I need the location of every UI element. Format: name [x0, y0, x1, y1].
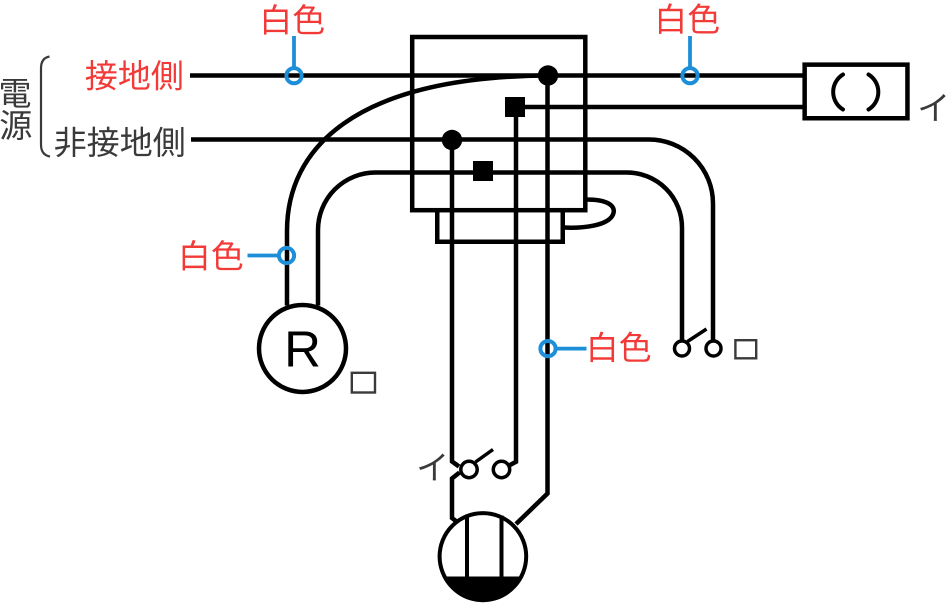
blue leader line bottom-middle — [557, 347, 587, 351]
node: junction square lower (lamp-switch loop) — [473, 161, 493, 181]
wire: lamp R left terminal curving up to grounded node — [287, 76, 548, 306]
junction box — [412, 37, 585, 210]
label 白色 left — [183, 240, 243, 270]
wire: ungrounded node down to switch i left pole — [452, 140, 459, 467]
node: ungrounded-side junction dot — [442, 130, 462, 150]
node: grounded-side junction dot — [538, 65, 558, 85]
label 非接地側 (ungrounded side) — [55, 127, 183, 158]
switch i right pole — [493, 461, 509, 477]
switch ro lever — [688, 329, 707, 342]
switch i left pole — [461, 461, 477, 477]
power source bracket — [41, 57, 50, 157]
ceiling light filled base segment — [443, 577, 524, 603]
cable loop at box corner — [563, 200, 614, 228]
blue marker circle bottom-middle — [540, 341, 555, 356]
wire: switch i left pole down to lamp — [452, 473, 460, 522]
label イ at switch — [419, 453, 445, 480]
wire: junction square to outlet bottom terminal — [515, 105, 806, 110]
wire: ungrounded-side horizontal, curving down to switch ro right pole — [191, 140, 713, 341]
label 電 (power source) — [1, 79, 30, 108]
svg-text:R: R — [284, 321, 321, 378]
label 源 (power source) — [1, 110, 32, 140]
blue leader line left — [248, 254, 278, 258]
receptacle R circle — [259, 305, 346, 392]
wire: lamp R right terminal through junction square, curving down to switch ro left pole — [318, 173, 682, 341]
node: junction square upper (to outlet) — [505, 97, 525, 117]
switch ro right pole — [706, 341, 721, 356]
wire: junction square down to switch i right pole — [510, 117, 516, 465]
outlet box — [805, 65, 908, 119]
ceiling light circle — [440, 513, 527, 600]
wire: grounded-side horizontal to outlet — [190, 73, 806, 78]
junction box tab — [437, 210, 563, 242]
label 白色 bottom-middle — [591, 332, 651, 362]
label イ at outlet — [920, 94, 946, 121]
wire: grounded node down to lamp — [516, 76, 548, 525]
blue leader line top-left — [292, 36, 296, 67]
blue marker circle top-left — [286, 68, 301, 83]
outlet right paren — [869, 75, 879, 110]
label 接地側 (grounded side) — [86, 60, 182, 90]
label 白色 top-left — [264, 4, 324, 34]
label square for R — [352, 373, 375, 393]
blue marker circle top-right — [682, 68, 697, 83]
ceiling light inner line right — [500, 516, 504, 577]
switch i lever — [476, 450, 494, 463]
label square for switch ro — [735, 340, 756, 358]
blue leader line top-right — [688, 36, 692, 67]
blue marker circle left — [279, 248, 294, 263]
outlet left paren — [833, 75, 843, 110]
label 白色 top-right — [659, 3, 719, 33]
switch ro left pole — [675, 341, 690, 356]
ceiling light inner line left — [465, 515, 469, 577]
